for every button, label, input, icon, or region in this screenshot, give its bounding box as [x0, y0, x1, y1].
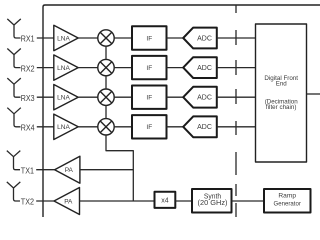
wire RX3 antenna to LNA: [37, 96, 54, 98]
ADC block (RX4): [183, 116, 217, 137]
wire TX2 antenna to PA2: [36, 200, 54, 202]
svg-text:(20 GHz): (20 GHz): [198, 200, 228, 207]
x4 frequency multiplier block: [155, 192, 176, 208]
svg-text:IF: IF: [146, 95, 152, 102]
wire mixer4 to IF4: [114, 126, 132, 128]
wire LNA1 to mixer1: [78, 37, 98, 39]
IF block (RX1): [132, 26, 167, 49]
mixer (RX1): [98, 30, 114, 46]
svg-text:TX1: TX1: [21, 166, 35, 175]
wire mixer2 to IF2: [114, 67, 132, 69]
svg-text:RX4: RX4: [21, 124, 35, 133]
svg-text:PA: PA: [65, 167, 74, 174]
svg-text:LNA: LNA: [57, 95, 70, 102]
wire x4 to synth: [175, 200, 192, 202]
Ramp Generator block: [264, 189, 311, 213]
antenna RX3: [7, 78, 20, 97]
antenna RX4: [7, 108, 20, 127]
svg-text:LNA: LNA: [57, 124, 70, 131]
mixer (RX3): [98, 89, 114, 105]
antenna RX2: [7, 49, 20, 68]
IF block (RX3): [132, 86, 167, 109]
wire TX1 antenna to PA1: [36, 169, 54, 171]
wire RX1 antenna to LNA: [37, 37, 54, 39]
svg-text:RX3: RX3: [21, 94, 35, 103]
antenna TX2: [7, 182, 20, 201]
wire ADC2 to digital front end: [217, 67, 256, 69]
PA (TX2): [54, 188, 80, 215]
Digital Front End block: [256, 24, 307, 162]
PA (TX1): [55, 156, 80, 183]
mixer (RX4): [98, 119, 114, 135]
wire IF3 to ADC3: [167, 96, 184, 98]
svg-text:Ramp: Ramp: [278, 192, 296, 199]
svg-text:ADC: ADC: [197, 65, 212, 72]
LNA (RX1): [54, 25, 78, 50]
LNA (RX3): [54, 85, 78, 110]
svg-text:RX1: RX1: [21, 35, 35, 44]
svg-text:x4: x4: [161, 197, 169, 204]
wire IF1 to ADC1: [167, 37, 184, 39]
wire mixer1 to IF1: [114, 37, 132, 39]
ADC block (RX3): [183, 87, 217, 108]
svg-text:ADC: ADC: [197, 124, 212, 131]
wire RX2 antenna to LNA: [37, 67, 54, 69]
wire LNA3 to mixer3: [78, 96, 98, 98]
antenna RX1: [7, 19, 20, 38]
wire mixer4 down to LO run: [106, 135, 133, 201]
wire synth to ramp generator: [232, 200, 265, 202]
svg-text:LNA: LNA: [57, 35, 70, 42]
ADC block (RX2): [183, 57, 217, 78]
svg-text:PA: PA: [64, 198, 73, 205]
antenna TX1: [7, 151, 20, 170]
svg-text:filter chain): filter chain): [266, 104, 297, 111]
wire PA2 input / LO feed to x4: [80, 200, 155, 202]
mixer (RX2): [98, 59, 114, 75]
wire digital front end output: [307, 93, 320, 95]
svg-text:ADC: ADC: [197, 35, 212, 42]
ADC block (RX1): [183, 28, 217, 49]
dashed analog/digital boundary line: [235, 5, 237, 217]
svg-text:RX2: RX2: [21, 64, 35, 73]
svg-text:IF: IF: [146, 124, 152, 131]
svg-text:ADC: ADC: [197, 95, 212, 102]
LNA (RX2): [54, 55, 78, 80]
wire IF2 to ADC2: [167, 67, 184, 69]
svg-text:Generator: Generator: [274, 200, 302, 207]
wire ADC3 to digital front end: [217, 96, 256, 98]
LO bus: mixer chain vertical wire: [105, 46, 107, 59]
chip outline (top and left edges): [43, 5, 320, 217]
wire mixer3 to IF3: [114, 96, 132, 98]
wire LNA4 to mixer4: [78, 126, 98, 128]
svg-text:End: End: [276, 80, 288, 87]
wire mixer3-mixer4: [105, 105, 107, 118]
wire PA1 input from LO bus: [80, 169, 133, 171]
wire ADC4 to digital front end: [217, 126, 256, 128]
svg-text:IF: IF: [146, 35, 152, 42]
Synth (20 GHz) block: [192, 189, 232, 213]
wire RX4 antenna to LNA: [37, 126, 54, 128]
wire IF4 to ADC4: [167, 126, 184, 128]
wire LNA2 to mixer2: [78, 67, 98, 69]
svg-text:TX2: TX2: [21, 198, 35, 207]
wire mixer2-mixer3: [105, 76, 107, 89]
wire ADC1 to digital front end: [217, 37, 256, 39]
IF block (RX2): [132, 56, 167, 79]
svg-text:LNA: LNA: [57, 65, 70, 72]
svg-text:IF: IF: [146, 65, 152, 72]
IF block (RX4): [132, 115, 167, 138]
LNA (RX4): [54, 114, 78, 139]
